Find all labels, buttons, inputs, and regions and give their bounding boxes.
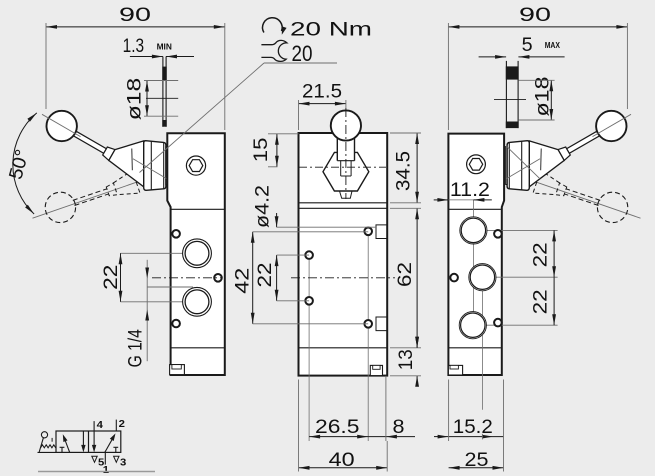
valve symbol flow arrow (left square diagonal) xyxy=(64,437,70,453)
svg-text:15: 15 xyxy=(251,138,272,163)
front view horizontal centerline through nut xyxy=(299,166,386,168)
left view pilot hole middle xyxy=(214,274,222,282)
right view body seam line xyxy=(448,208,501,210)
left view port leader lines xyxy=(121,252,198,254)
svg-text:MIN: MIN xyxy=(157,43,173,52)
front view boot tip below nut xyxy=(340,191,353,198)
svg-text:90: 90 xyxy=(119,5,151,26)
left view port G1/4 lower xyxy=(183,287,212,316)
front view lever hex nut xyxy=(323,152,369,191)
svg-text:22: 22 xyxy=(255,263,276,288)
front view side tab upper xyxy=(376,225,387,239)
svg-text:4: 4 xyxy=(97,419,103,431)
front view mounting hole left-upper xyxy=(305,251,313,259)
svg-text:22: 22 xyxy=(101,265,122,290)
left view lever shaft xyxy=(72,130,107,153)
svg-text:34.5: 34.5 xyxy=(394,151,415,191)
torque symbol 20 Nm (circular arrow) xyxy=(263,18,283,33)
svg-text:1.3: 1.3 xyxy=(123,36,145,57)
front view hole column centerlines xyxy=(308,255,310,441)
front view vertical centerline xyxy=(345,108,347,199)
left seal disc xyxy=(162,57,164,127)
svg-text:G 1/4: G 1/4 xyxy=(126,329,147,368)
left view port G1/4 upper xyxy=(183,239,212,268)
front view seam lines xyxy=(299,202,388,204)
left view hex socket screw xyxy=(186,156,205,175)
valve symbol exhaust 3 triangle xyxy=(114,456,119,462)
left view solid lever axis centerline xyxy=(42,114,81,136)
right view mounting foot xyxy=(448,365,462,375)
right view pilot hole top xyxy=(494,230,502,238)
front view mounting hole top-right xyxy=(364,228,372,236)
valve symbol port 1 line xyxy=(104,452,106,464)
front view lever stem xyxy=(337,137,354,161)
svg-text:21.5: 21.5 xyxy=(302,82,342,103)
svg-text:22: 22 xyxy=(531,289,552,314)
svg-text:1: 1 xyxy=(103,464,109,476)
valve symbol manual lever actuator xyxy=(39,438,43,452)
svg-text:11.2: 11.2 xyxy=(450,180,490,201)
left view nut facet line 2 xyxy=(163,143,165,189)
front view mounting hole left-lower xyxy=(305,297,313,305)
svg-text:62: 62 xyxy=(395,262,416,287)
front view horizontal centerline xyxy=(291,277,395,279)
right view port centerline vertical xyxy=(472,200,474,325)
right view body base line xyxy=(448,347,501,349)
svg-text:20 Nm: 20 Nm xyxy=(290,19,372,40)
left view panel nut xyxy=(144,141,166,191)
table edge line xyxy=(38,471,155,473)
svg-text:3: 3 xyxy=(120,456,126,468)
front view valve body outline xyxy=(299,133,388,376)
front view base line xyxy=(299,347,388,349)
svg-text:15.2: 15.2 xyxy=(453,417,493,438)
right view port leader lines xyxy=(473,229,557,231)
svg-text:ø18: ø18 xyxy=(125,78,146,121)
left view pilot hole top xyxy=(172,230,180,238)
left view body seam line xyxy=(171,208,225,210)
valve symbol flow arrow (right square diagonal) xyxy=(105,436,114,453)
right view port 3 (bottom) xyxy=(459,312,486,339)
svg-text:2: 2 xyxy=(119,418,125,430)
valve symbol blocked port T (right square) xyxy=(115,447,117,452)
right view valve body outline xyxy=(448,134,504,375)
left view dashed lever boot (phantom) xyxy=(113,170,140,194)
left view nut cross line xyxy=(133,159,167,179)
right view port 2 (middle) xyxy=(469,264,496,291)
left view lever ball xyxy=(47,111,77,141)
right view pilot hole left xyxy=(450,274,458,282)
left view valve body outline xyxy=(167,133,225,375)
svg-text:42: 42 xyxy=(233,268,254,294)
right view pilot hole bottom xyxy=(494,319,502,327)
front view mounting hole bottom-right xyxy=(364,320,372,328)
svg-text:5: 5 xyxy=(522,35,533,56)
left view dashed lever axis extension line xyxy=(33,179,148,219)
left view 50-deg swing arc xyxy=(13,113,37,214)
front view lever ball xyxy=(331,110,361,140)
front view side tab lower xyxy=(376,317,387,331)
wrench symbol xyxy=(261,40,287,61)
svg-text:13: 13 xyxy=(396,349,417,370)
valve symbol body (two squares) xyxy=(56,431,121,452)
svg-text:ø4.2: ø4.2 xyxy=(253,185,274,228)
left view lever boot crease xyxy=(131,149,134,171)
left view lever collet xyxy=(103,147,115,160)
wrench leader line xyxy=(264,62,337,64)
left view nut collar xyxy=(166,147,167,185)
svg-text:22: 22 xyxy=(531,242,552,267)
left view nut facet line 1 xyxy=(150,141,152,190)
left view dashed lever collet (phantom) xyxy=(106,183,117,196)
left view dashed lever ball (phantom) xyxy=(45,192,75,222)
right view lever assembly (mirrored) xyxy=(506,111,631,223)
left view mounting foot xyxy=(170,365,185,375)
right seal disc xyxy=(505,61,507,128)
svg-text:8: 8 xyxy=(393,417,405,438)
right view dashed lever axis extension line xyxy=(526,179,641,219)
left view lever boot cone xyxy=(109,141,144,187)
svg-text:26.5: 26.5 xyxy=(315,417,360,438)
right view hex socket screw xyxy=(467,155,486,174)
valve symbol port 2 line xyxy=(115,420,117,431)
front view mounting foot xyxy=(370,365,382,375)
svg-text:20: 20 xyxy=(292,41,313,66)
left view body base line xyxy=(171,347,225,349)
right view port 1 (top) xyxy=(460,217,487,244)
left view pilot hole bottom xyxy=(172,320,180,328)
left view horizontal centerline xyxy=(152,277,222,279)
left view dashed lever shaft (phantom) xyxy=(73,189,107,201)
svg-text:90: 90 xyxy=(519,5,551,26)
valve symbol exhaust 5 triangle xyxy=(92,456,97,462)
valve symbol flow arrow (left square vertical) xyxy=(82,431,84,450)
valve symbol blocked port T (left square) xyxy=(61,447,63,452)
valve symbol flow arrow (right square vertical) xyxy=(93,421,95,449)
svg-text:MAX: MAX xyxy=(545,41,561,50)
